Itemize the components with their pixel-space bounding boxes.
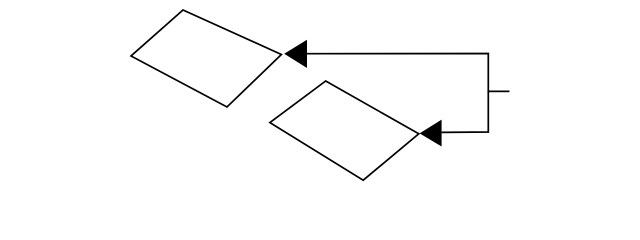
rotated rectangle shape 2 xyxy=(270,81,419,180)
wire connector 2 (stub to lower shape) xyxy=(442,91,510,132)
arrowhead 1 xyxy=(284,40,307,68)
arrowhead 2 xyxy=(420,120,442,147)
rotated rectangle shape 1 xyxy=(131,10,281,107)
wire connector 1 (stub to upper shape) xyxy=(307,54,509,92)
